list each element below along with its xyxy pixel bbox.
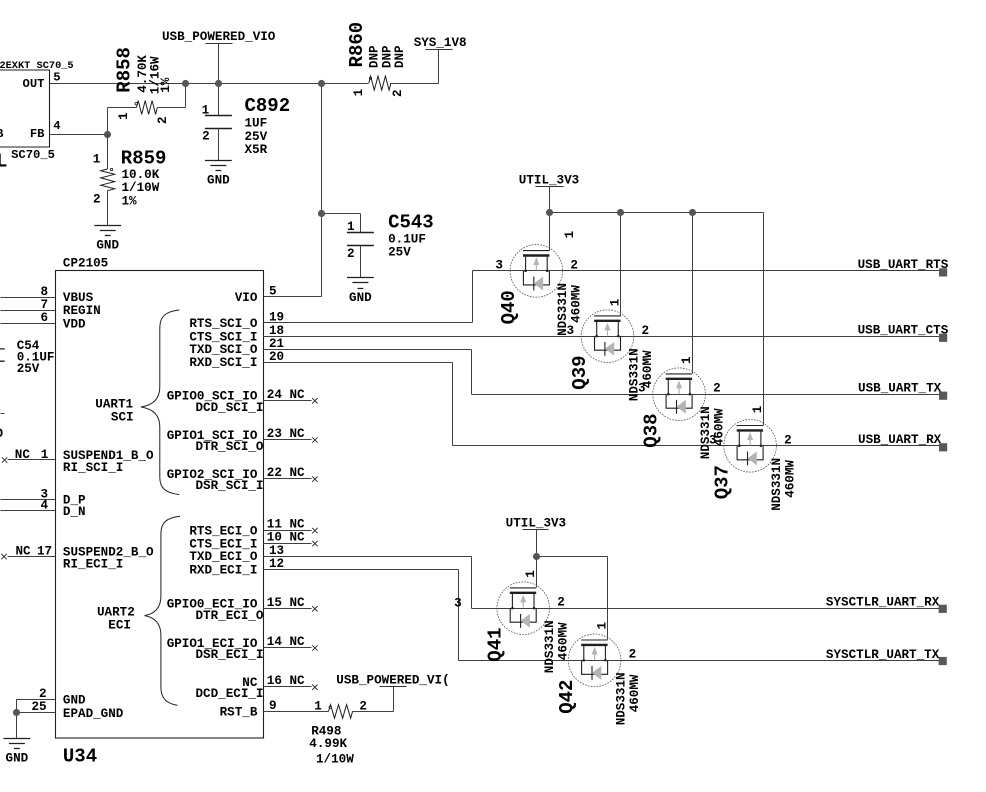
off-page connector USB_UART_CTS — [858, 324, 949, 342]
svg-text:O: O — [0, 427, 3, 441]
svg-text:DNP: DNP — [380, 45, 394, 68]
svg-text:Q38: Q38 — [641, 413, 663, 447]
svg-text:20: 20 — [269, 350, 284, 364]
ground under R859 — [94, 226, 121, 236]
junction dot VIO/C543 branch — [318, 210, 325, 217]
svg-text:1: 1 — [595, 622, 609, 630]
svg-text:SCI: SCI — [111, 411, 134, 425]
regulator IC U? (partial, SC70-5 package) — [0, 60, 74, 173]
svg-text:1: 1 — [314, 699, 322, 713]
pin 9 RST_B — [220, 699, 329, 719]
junction dot rail/Q39 gate — [617, 209, 624, 216]
svg-text:RXD_SCI_I: RXD_SCI_I — [189, 356, 257, 370]
svg-text:1UF: 1UF — [245, 116, 268, 130]
svg-text:RTS_SCI_O: RTS_SCI_O — [189, 317, 257, 331]
svg-text:Q42: Q42 — [556, 680, 578, 714]
svg-text:2: 2 — [784, 433, 792, 447]
svg-text:4: 4 — [40, 499, 48, 513]
wire net USB_POWERED_VIO rail — [50, 44, 369, 297]
svg-text:DCD_ECI_I: DCD_ECI_I — [195, 687, 263, 701]
svg-text:UART1: UART1 — [95, 398, 133, 412]
wire RXD_SCI_I to Q37 and USB_UART_RX — [453, 363, 942, 446]
svg-text:C543: C543 — [388, 212, 434, 234]
brace UART2 ECI group — [97, 516, 180, 705]
svg-text:1%: 1% — [159, 77, 173, 93]
IC U34 CP2105 body — [56, 257, 264, 768]
svg-text:12: 12 — [269, 557, 284, 571]
svg-text:15 NC: 15 NC — [267, 596, 305, 610]
svg-text:DSR_ECI_I: DSR_ECI_I — [195, 648, 263, 662]
svg-text:2: 2 — [93, 193, 101, 207]
wire RXD_ECI_I to Q42 and SYSCTLR_UART_TX — [459, 570, 942, 661]
svg-text:4.99K: 4.99K — [309, 737, 347, 751]
svg-text:SYS_1V8: SYS_1V8 — [414, 36, 467, 50]
pin 13 TXD_ECI_O — [189, 544, 471, 564]
wire stub at left edge — [1, 413, 5, 415]
transistor Q40 NDS331N — [495, 230, 583, 336]
resistor R498 4.99K — [309, 687, 393, 767]
svg-text:6: 6 — [40, 311, 48, 325]
net label UTIL_3V3 (lower) — [506, 516, 566, 530]
svg-text:DSR_SCI_I: DSR_SCI_I — [195, 479, 263, 493]
svg-text:VIO: VIO — [235, 291, 258, 305]
svg-text:DNP: DNP — [367, 45, 381, 68]
svg-text:UTIL_3V3: UTIL_3V3 — [519, 173, 579, 187]
svg-text:RI_SCI_I: RI_SCI_I — [63, 461, 123, 475]
svg-text:REGIN: REGIN — [63, 304, 101, 318]
svg-text:2: 2 — [391, 89, 405, 97]
svg-text:1: 1 — [680, 356, 694, 364]
svg-text:EPAD_GND: EPAD_GND — [63, 707, 124, 721]
svg-text:SC70_5: SC70_5 — [11, 148, 55, 162]
svg-text:1: 1 — [202, 103, 210, 117]
svg-text:2: 2 — [359, 699, 367, 713]
svg-text:2EXKT SC70_5: 2EXKT SC70_5 — [0, 60, 74, 72]
svg-text:2: 2 — [39, 687, 47, 701]
ground under C892 — [205, 161, 232, 171]
svg-text:GND: GND — [6, 751, 29, 765]
svg-text:Q41: Q41 — [485, 627, 507, 661]
svg-text:FB: FB — [30, 127, 45, 141]
net label USB_POWERED_VIO (lower, clipped) — [336, 673, 449, 687]
junction dot GND/EPAD_GND — [13, 709, 20, 716]
wire CTS_SCI_I to Q39 and USB_UART_CTS — [510, 336, 942, 338]
svg-text:25V: 25V — [245, 130, 268, 144]
svg-text:VBUS: VBUS — [63, 291, 94, 305]
svg-text:USB_UART_TX: USB_UART_TX — [858, 382, 942, 396]
pin 15 GPIO0_ECI_IO (NC) — [167, 596, 318, 623]
capacitor C892 1UF — [202, 95, 290, 160]
svg-text:GND: GND — [349, 291, 372, 305]
svg-text:L: L — [0, 150, 7, 172]
svg-text:10.0K: 10.0K — [122, 168, 160, 182]
pin 18 CTS_SCI_I — [189, 324, 510, 344]
svg-text:USB_POWERED_VI(: USB_POWERED_VI( — [336, 673, 449, 687]
pin 8 VBUS — [1, 285, 94, 305]
svg-text:NDS331N: NDS331N — [614, 672, 628, 725]
svg-text:VDD: VDD — [63, 317, 86, 331]
svg-text:Q40: Q40 — [498, 290, 520, 324]
svg-text:2: 2 — [629, 648, 637, 662]
svg-text:2: 2 — [713, 382, 721, 396]
svg-text:TXD_ECI_O: TXD_ECI_O — [189, 550, 257, 564]
svg-text:USB_POWERED_VIO: USB_POWERED_VIO — [162, 30, 276, 44]
svg-text:1: 1 — [93, 152, 101, 166]
pin 22 GPIO2_SCI_IO (NC) — [167, 466, 318, 493]
svg-text:2: 2 — [557, 596, 565, 610]
svg-text:Q39: Q39 — [569, 355, 591, 389]
svg-text:1: 1 — [117, 112, 131, 120]
svg-text:2: 2 — [642, 324, 650, 338]
pin 10 CTS_ECI_I (NC) — [189, 531, 317, 552]
pin 14 GPIO1_ECI_IO (NC) — [167, 635, 318, 662]
svg-text:R859: R859 — [121, 147, 167, 169]
junction dot rail/R858 — [182, 80, 189, 87]
wire TXD_ECI_O to Q41 and SYSCTLR_UART_RX — [472, 557, 942, 609]
svg-text:1/10W: 1/10W — [122, 181, 160, 195]
svg-text:RST_B: RST_B — [220, 706, 258, 720]
svg-text:R858: R858 — [113, 47, 135, 93]
svg-text:USB_UART_RTS: USB_UART_RTS — [858, 258, 949, 272]
svg-text:17: 17 — [37, 544, 52, 558]
svg-text:NC: NC — [16, 544, 32, 558]
svg-text:460MW: 460MW — [570, 285, 584, 323]
svg-text:14 NC: 14 NC — [267, 635, 305, 649]
svg-text:7: 7 — [40, 298, 48, 312]
svg-text:GND: GND — [96, 239, 119, 253]
svg-text:DTR_ECI_O: DTR_ECI_O — [195, 609, 263, 623]
transistor Q39 NDS331N — [566, 298, 654, 401]
junction dot rail/Q38 gate — [689, 209, 696, 216]
svg-text:1/10W: 1/10W — [316, 752, 354, 766]
svg-text:460MW: 460MW — [557, 622, 571, 660]
pin 3 D_P — [1, 487, 87, 507]
svg-text:25V: 25V — [388, 245, 411, 259]
svg-text:GND: GND — [207, 174, 230, 188]
svg-text:25V: 25V — [17, 362, 40, 376]
svg-text:10 NC: 10 NC — [267, 531, 305, 545]
wire UTIL_3V3 gate rail (lower) — [537, 530, 608, 640]
pin 19 RTS_SCI_O — [189, 311, 472, 331]
transistor Q41 NDS331N — [454, 570, 570, 673]
junction dot rail/Q40 gate — [546, 209, 553, 216]
svg-text:2: 2 — [347, 247, 355, 261]
svg-text:DNP: DNP — [393, 45, 407, 68]
svg-text:3: 3 — [709, 433, 717, 447]
svg-text:21: 21 — [269, 337, 285, 351]
pin 7 REGIN — [1, 298, 101, 318]
svg-text:9: 9 — [269, 699, 277, 713]
svg-text:3: 3 — [638, 382, 646, 396]
svg-text:SYSCTLR_UART_RX: SYSCTLR_UART_RX — [826, 596, 940, 610]
transistor Q42 NDS331N — [556, 622, 642, 726]
svg-text:Q37: Q37 — [712, 465, 734, 499]
svg-text:D_N: D_N — [63, 505, 86, 519]
svg-text:GND: GND — [63, 693, 86, 707]
pin 20 RXD_SCI_I — [189, 350, 452, 370]
svg-text:5: 5 — [269, 285, 277, 299]
svg-text:1: 1 — [563, 230, 577, 238]
svg-text:25: 25 — [31, 700, 46, 714]
svg-text:3: 3 — [495, 258, 503, 272]
svg-text:22 NC: 22 NC — [267, 466, 305, 480]
wire RTS_SCI_O to Q40 and USB_UART_RTS — [473, 271, 942, 323]
svg-text:UART2: UART2 — [97, 605, 135, 619]
svg-text:4: 4 — [53, 119, 60, 133]
svg-text:24 NC: 24 NC — [267, 388, 305, 402]
svg-text:19: 19 — [269, 311, 284, 325]
svg-text:23 NC: 23 NC — [267, 427, 305, 441]
pin 1 SUSPEND1_B_O (NC) — [2, 448, 154, 475]
svg-text:11 NC: 11 NC — [267, 518, 305, 532]
pin 16 NC / DCD_ECI_I — [195, 674, 317, 701]
svg-text:C892: C892 — [245, 95, 291, 117]
svg-text:USB_UART_RX: USB_UART_RX — [858, 433, 942, 447]
svg-text:OUT: OUT — [23, 77, 45, 91]
svg-text:U34: U34 — [63, 745, 97, 767]
svg-text:RXD_ECI_I: RXD_ECI_I — [189, 563, 257, 577]
svg-text:2: 2 — [570, 258, 578, 272]
svg-text:RI_ECI_I: RI_ECI_I — [63, 558, 123, 572]
svg-text:3: 3 — [454, 596, 462, 610]
svg-text:NC: NC — [15, 448, 31, 462]
net label USB_POWERED_VIO — [162, 30, 276, 44]
junction dot rail/C892 — [215, 80, 222, 87]
junction dot FB/R858/R859 — [104, 131, 111, 138]
pin 25 EPAD_GND — [17, 700, 124, 739]
pin 4 D_N — [1, 499, 86, 519]
svg-text:NDS331N: NDS331N — [543, 620, 557, 673]
svg-text:13: 13 — [269, 544, 284, 558]
capacitor C543 0.1UF — [347, 212, 434, 278]
pin 11 RTS_ECI_O (NC) — [189, 518, 317, 539]
svg-text:16 NC: 16 NC — [267, 674, 305, 688]
ground at EPAD — [4, 739, 31, 749]
svg-text:TXD_SCI_O: TXD_SCI_O — [189, 343, 257, 357]
resistor R859 10.0K — [93, 135, 167, 226]
pin 12 RXD_ECI_I — [189, 557, 458, 577]
transistor Q38 NDS331N — [638, 356, 726, 459]
pin 23 GPIO1_SCI_IO (NC) — [167, 427, 318, 454]
svg-text:ECI: ECI — [108, 619, 131, 633]
pin 5 VIO — [235, 285, 277, 305]
ground under C543 — [347, 278, 374, 289]
svg-text:460MW: 460MW — [783, 460, 797, 498]
svg-text:1: 1 — [352, 88, 366, 96]
pin 17 SUSPEND2_B_O (NC) — [1, 544, 154, 571]
off-page connector USB_UART_RTS — [858, 258, 949, 276]
svg-text:1: 1 — [41, 448, 49, 462]
pin 6 VDD — [1, 311, 87, 331]
svg-text:CP2105: CP2105 — [63, 257, 108, 271]
transistor Q37 NDS331N — [709, 405, 797, 511]
capacitor C54 0.1UF (partial at edge) — [0, 339, 54, 376]
svg-text:NDS331N: NDS331N — [770, 458, 784, 511]
svg-text:1%: 1% — [122, 194, 138, 208]
junction dot rail/VIO branch — [318, 80, 325, 87]
pin 2 GND — [17, 687, 87, 707]
svg-text:USB_UART_CTS: USB_UART_CTS — [858, 324, 949, 338]
svg-text:R860: R860 — [346, 22, 368, 68]
svg-text:460MW: 460MW — [628, 674, 642, 712]
pin 21 TXD_SCI_O — [189, 337, 471, 357]
svg-text:DCD_SCI_I: DCD_SCI_I — [195, 401, 263, 415]
off-page connector SYSCTLR_UART_RX — [826, 596, 947, 613]
svg-text:1: 1 — [751, 405, 765, 413]
svg-text:5: 5 — [53, 70, 60, 84]
svg-text:RTS_ECI_O: RTS_ECI_O — [189, 524, 257, 538]
svg-text:3: 3 — [566, 324, 574, 338]
svg-text:8: 8 — [40, 285, 48, 299]
off-page connector USB_UART_RX — [858, 433, 947, 451]
wire TXD_SCI_O to Q38 and USB_UART_TX — [472, 350, 942, 395]
svg-text:1: 1 — [608, 298, 622, 306]
svg-text:UTIL_3V3: UTIL_3V3 — [506, 516, 566, 530]
svg-text:1: 1 — [524, 570, 538, 578]
svg-text:SYSCTLR_UART_TX: SYSCTLR_UART_TX — [826, 648, 940, 662]
resistor R860 DNP — [346, 22, 439, 97]
brace UART1 SCI group — [95, 310, 179, 495]
net label UTIL_3V3 (upper) — [519, 173, 579, 187]
off-page connector SYSCTLR_UART_TX — [826, 648, 947, 665]
svg-text:2: 2 — [202, 129, 210, 143]
off-page connector USB_UART_TX — [858, 382, 947, 400]
wire UTIL_3V3 gate rail (upper) — [550, 187, 764, 426]
junction dot rail/Q41 gate — [533, 553, 540, 560]
resistor R858 4.70K — [50, 47, 186, 134]
svg-text:1: 1 — [347, 220, 355, 234]
svg-text:X5R: X5R — [245, 143, 268, 157]
net label SYS_1V8 — [414, 36, 467, 50]
pin 24 GPIO0_SCI_IO (NC) — [167, 388, 318, 415]
svg-text:DTR_SCI_O: DTR_SCI_O — [195, 440, 263, 454]
svg-text:2: 2 — [156, 116, 170, 124]
